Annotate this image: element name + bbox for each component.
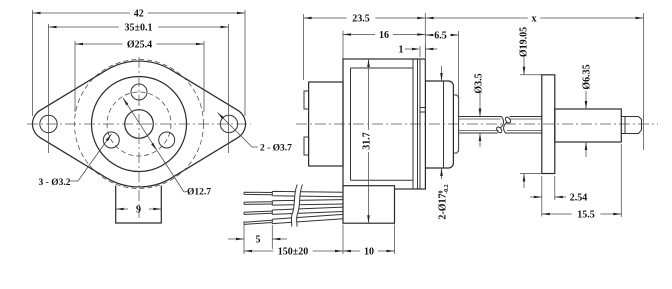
ext lines dim 42 [32, 10, 34, 116]
dim 15.5 [542, 213, 572, 215]
svg-text:2 - Ø3.7: 2 - Ø3.7 [260, 143, 292, 153]
ext lines dim 5 [243, 221, 245, 254]
shaft right segment Ø3.5 [510, 116, 542, 118]
dim 2-Ø17 dia [441, 66, 443, 81]
boss section Ø6.35 [555, 109, 622, 142]
main body [343, 59, 425, 189]
boss circle [92, 77, 187, 172]
horizontal centerline (left view) [27, 123, 251, 125]
centerline (right view) [296, 123, 658, 125]
svg-text:2.54: 2.54 [570, 193, 588, 204]
ext lines dim 35 [48, 24, 50, 153]
main body inner left line [350, 68, 352, 180]
front hub [453, 95, 458, 153]
small notch on body right face [420, 108, 425, 113]
left ear hole Ø3.7 [40, 115, 57, 132]
svg-text:Ø3.5: Ø3.5 [473, 73, 484, 93]
front housing Ø17 [425, 81, 453, 168]
dim x [426, 17, 528, 19]
leader Ø12.7 diameter line [123, 98, 184, 192]
dim 5 [228, 238, 244, 240]
hole 1 of 3-Ø3.2 (top) [131, 84, 147, 100]
ext lines 2.54 [541, 176, 543, 217]
svg-text:9: 9 [136, 205, 141, 216]
rear lamination tab bottom [304, 137, 309, 155]
main body right inner line 1 [412, 59, 414, 189]
wire break symbol [291, 185, 302, 227]
dim 9 (tab width) [116, 208, 128, 210]
svg-text:1: 1 [399, 45, 404, 56]
svg-text:Ø6.35: Ø6.35 [582, 64, 593, 89]
flange outline (left view) [32, 61, 245, 187]
mounting disc Ø19.05 [542, 75, 555, 174]
rear lamination tab top [304, 91, 309, 109]
shaft tip [621, 117, 641, 134]
lead wires (4x) [244, 192, 272, 195]
svg-text:Ø19.05: Ø19.05 [519, 27, 530, 57]
hole 3 of 3-Ø3.2 (bottom-right) [159, 132, 175, 148]
svg-text:6.5: 6.5 [434, 31, 447, 42]
shaft break symbol [500, 116, 503, 127]
dim 42 [33, 12, 130, 14]
dim 2.54 [530, 196, 542, 198]
svg-text:35±0.1: 35±0.1 [125, 23, 153, 34]
svg-text:31.7: 31.7 [362, 132, 373, 150]
main body end-cap line 2 [419, 59, 421, 189]
central hole Ø5.6 [125, 110, 154, 139]
bottom tab [116, 186, 162, 224]
svg-text:x: x [532, 14, 537, 25]
label Ø12.7 [184, 191, 187, 194]
dim 23.5 [304, 17, 347, 19]
hole 2 of 3-Ø3.2 (bottom-left) [103, 132, 119, 148]
dim 16 [343, 34, 375, 36]
main body inner top line [351, 67, 414, 69]
dim 6.5 [425, 34, 430, 36]
svg-text:42: 42 [134, 9, 144, 20]
svg-text:23.5: 23.5 [352, 14, 370, 25]
svg-text:Ø12.7: Ø12.7 [187, 188, 211, 198]
leader 2-Ø3.7 [218, 113, 253, 148]
main body end-cap line 1 [417, 59, 419, 189]
svg-text:10: 10 [364, 247, 374, 258]
dim 10 [343, 250, 360, 252]
svg-text:5: 5 [256, 235, 261, 246]
terminal box [343, 186, 395, 224]
svg-text:Ø25.4: Ø25.4 [127, 40, 152, 51]
bolt circle Ø12.7 (dashed) [107, 92, 171, 156]
front housing inner line [443, 81, 445, 168]
ext line x right [643, 13, 645, 150]
ext line 23.5 left [303, 14, 305, 80]
svg-text:15.5: 15.5 [577, 210, 595, 221]
svg-text:16: 16 [379, 30, 389, 41]
dim Ø25.4 [75, 43, 123, 45]
dim 31.7 line through box [368, 186, 370, 224]
reference circle Ø25.4 (dashed) [75, 60, 204, 189]
dim 150±20 [244, 250, 273, 252]
dim 35±0.1 [49, 26, 119, 28]
main body inner bottom line [351, 179, 414, 181]
dim 31.7 vertical [368, 59, 370, 130]
svg-text:150±20: 150±20 [278, 247, 309, 258]
ext line 15.5 right [620, 144, 622, 217]
ext lines dim 25.4 [74, 41, 76, 112]
leader 3-Ø3.2 [70, 180, 78, 182]
ext line 16 left [342, 31, 344, 60]
ext line right face (23.5/16/6.5/x) [424, 13, 426, 80]
rear housing cylinder [309, 82, 343, 166]
vertical centerline (left view) [138, 57, 140, 218]
ext line 6.5 right [458, 31, 460, 100]
shaft left segment Ø3.5 [459, 116, 502, 118]
svg-text:3 - Ø3.2: 3 - Ø3.2 [39, 178, 71, 188]
ext lines bottom [342, 225, 344, 255]
right ear hole Ø3.7 [220, 115, 237, 132]
